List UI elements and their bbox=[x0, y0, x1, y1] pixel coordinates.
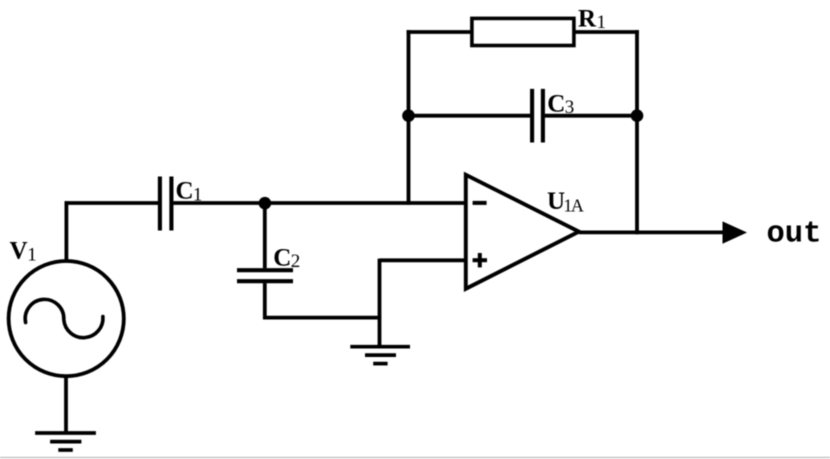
svg-text:C: C bbox=[273, 244, 291, 271]
svg-text:1: 1 bbox=[27, 245, 37, 266]
svg-text:1A: 1A bbox=[563, 196, 584, 216]
svg-text:C: C bbox=[176, 178, 194, 205]
svg-text:1: 1 bbox=[193, 185, 203, 206]
svg-text:1: 1 bbox=[597, 12, 607, 33]
svg-text:R: R bbox=[578, 5, 597, 32]
svg-text:out: out bbox=[767, 217, 822, 251]
svg-text:C: C bbox=[547, 90, 565, 117]
svg-text:U: U bbox=[547, 188, 565, 215]
svg-text:3: 3 bbox=[565, 97, 575, 118]
svg-text:2: 2 bbox=[291, 251, 301, 272]
svg-text:V: V bbox=[10, 238, 28, 265]
